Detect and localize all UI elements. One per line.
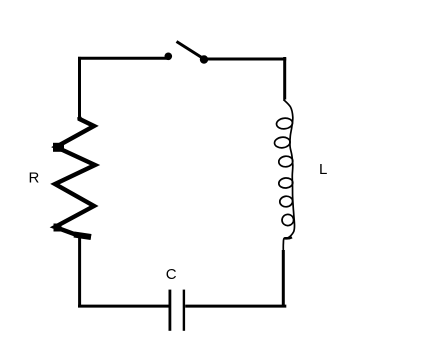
svg-text:R: R [29,170,40,187]
svg-text:L: L [319,161,327,178]
svg-text:C: C [166,266,177,283]
